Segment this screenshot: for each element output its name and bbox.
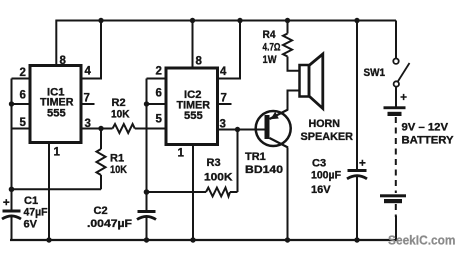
svg-text:SeekIC.com: SeekIC.com — [388, 233, 456, 248]
wire TR1 collector to ground rail — [287, 148, 289, 241]
svg-text:HORN: HORN — [309, 118, 341, 130]
svg-text:C3: C3 — [312, 158, 326, 170]
svg-text:16V: 16V — [311, 184, 331, 196]
svg-text:8: 8 — [60, 55, 67, 67]
node C2 / ground rail — [144, 237, 149, 242]
IC2 pin 7 stub and label — [217, 93, 232, 105]
svg-text:4.7Ω: 4.7Ω — [263, 42, 281, 54]
capacitor C2 .0047uF — [87, 192, 156, 240]
wire top rail to IC2 pin 4 — [217, 21, 240, 79]
svg-text:R1: R1 — [110, 153, 124, 165]
svg-text:4: 4 — [85, 66, 92, 78]
svg-text:7: 7 — [221, 93, 227, 105]
wire top rail to IC1 pin 4 — [81, 21, 102, 79]
svg-text:10K: 10K — [111, 109, 130, 121]
node IC1 pin 3 output junction — [98, 126, 103, 131]
svg-text:47µF: 47µF — [24, 207, 48, 219]
svg-text:4: 4 — [220, 66, 227, 78]
node top rail / IC1 pin 4 — [98, 18, 103, 23]
IC2 pin 1 wire to ground and label — [178, 145, 194, 241]
node IC1 pin 1 / ground rail — [46, 237, 51, 242]
svg-text:BD140: BD140 — [245, 164, 283, 176]
svg-text:100µF: 100µF — [311, 170, 341, 182]
IC1 pin 7 stub and label — [81, 93, 95, 105]
svg-text:5: 5 — [20, 117, 27, 129]
svg-text:100K: 100K — [204, 172, 233, 184]
horn speaker horn cone — [309, 54, 323, 109]
resistor R4 4.7ohm — [263, 29, 293, 66]
node C1 / R1 return junction — [9, 187, 15, 193]
svg-text:6V: 6V — [24, 219, 38, 231]
wire top rail down to C3 — [356, 21, 358, 171]
svg-text:10K: 10K — [110, 164, 127, 176]
wire R4 to speaker top terminal — [288, 57, 300, 71]
svg-text:C1: C1 — [24, 195, 38, 207]
wire top rail to R4 — [287, 21, 289, 34]
IC2 pin 3 stub and label — [217, 119, 265, 131]
node C2 / R3 junction — [144, 189, 150, 195]
svg-text:6: 6 — [156, 88, 162, 100]
node IC2 pin 3 / R3 junction — [235, 127, 240, 132]
svg-text:C2: C2 — [94, 205, 108, 217]
node IC2 pin 1 / ground rail — [190, 237, 195, 242]
IC1 pin 2 stub and label — [12, 67, 32, 79]
IC1 pin 1 wire to ground and label — [49, 143, 61, 241]
horn speaker driver rectangle — [300, 65, 310, 97]
node IC1 pin 6 junction — [9, 101, 14, 106]
IC1 pin 6 stub and label — [12, 90, 32, 105]
wire top rail to IC2 pin 8 — [192, 21, 194, 70]
wire speaker bottom terminal to TR1 emitter — [288, 91, 300, 111]
svg-text:9V – 12V: 9V – 12V — [402, 122, 449, 134]
resistor R2 10K — [101, 97, 167, 133]
svg-text:TR1: TR1 — [245, 151, 266, 163]
capacitor C1 47uF — [2, 195, 48, 240]
svg-text:1: 1 — [178, 148, 185, 160]
svg-text:5: 5 — [156, 114, 163, 126]
IC1 pin 3 stub and label — [81, 118, 102, 130]
wire top supply rail — [56, 20, 397, 22]
IC2 pin 2 stub and label — [147, 66, 168, 79]
node top rail / IC2 pin 8 — [190, 18, 195, 23]
wire bottom ground rail — [10, 239, 397, 241]
svg-text:SPEAKER: SPEAKER — [301, 131, 354, 143]
transistor TR1 BD140 — [245, 110, 291, 177]
battery 9V-12V — [380, 94, 454, 240]
svg-text:2: 2 — [20, 67, 26, 79]
wire IC2 pins 2-6 left vertical — [146, 79, 148, 193]
resistor R3 100K — [147, 130, 238, 197]
node IC2 pin 6 junction — [144, 101, 149, 106]
wire IC1 pin 8 to top rail — [55, 20, 57, 67]
node C3 / ground rail — [354, 237, 359, 242]
capacitor C3 100uF — [311, 158, 367, 241]
svg-text:8: 8 — [196, 56, 203, 68]
node top rail / IC2 pin 4 — [237, 18, 242, 23]
svg-text:.0047µF: .0047µF — [87, 218, 132, 230]
svg-text:6: 6 — [20, 90, 26, 102]
node TR1 collector / ground rail — [285, 237, 290, 242]
IC1 pin 5 stub and label — [12, 117, 32, 129]
horn speaker labels — [301, 118, 354, 143]
wire R1 return to C1 node — [12, 188, 102, 190]
svg-text:555: 555 — [47, 108, 66, 120]
svg-text:555: 555 — [184, 110, 203, 122]
IC2 pin 6 stub and label — [147, 88, 168, 105]
node top rail / R4 — [285, 18, 290, 23]
resistor R1 10K — [97, 129, 128, 190]
IC2 pin 5 stub and label — [147, 114, 168, 129]
svg-text:2: 2 — [156, 66, 162, 78]
svg-text:1: 1 — [54, 147, 61, 159]
svg-text:R3: R3 — [207, 157, 221, 169]
node top rail / C3 branch — [354, 18, 359, 23]
switch SW1 — [364, 21, 410, 108]
svg-text:3: 3 — [220, 119, 226, 131]
svg-text:1W: 1W — [263, 54, 278, 66]
svg-text:3: 3 — [85, 118, 91, 130]
wire IC1 pins 2-6-5 left vertical — [11, 79, 13, 211]
svg-text:SW1: SW1 — [364, 67, 386, 79]
svg-text:BATTERY: BATTERY — [402, 135, 455, 147]
op-amp IC2 555 timer box — [166, 68, 218, 145]
svg-text:R4: R4 — [263, 29, 277, 41]
svg-text:R2: R2 — [112, 97, 126, 109]
op-amp IC1 555 timer box — [30, 66, 81, 143]
svg-text:7: 7 — [84, 93, 90, 105]
